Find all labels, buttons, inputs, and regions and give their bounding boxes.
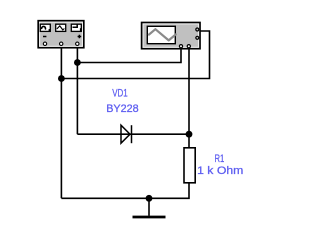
svg-text:1 k Ohm: 1 k Ohm [197, 165, 243, 177]
svg-text:R1: R1 [215, 153, 225, 165]
svg-text:VD1: VD1 [112, 88, 128, 100]
svg-text:BY228: BY228 [106, 103, 138, 115]
